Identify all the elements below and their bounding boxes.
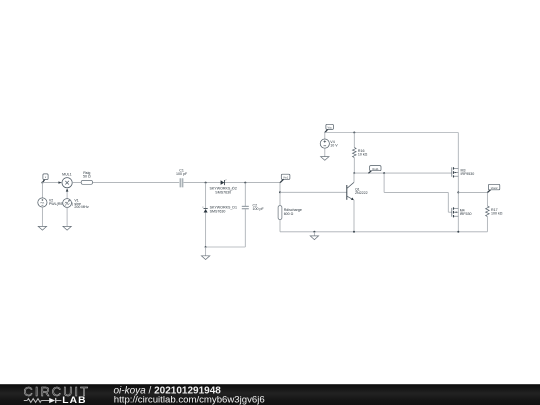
- wire: [41, 183, 43, 198]
- ground (under V1): [63, 226, 71, 230]
- wire top rail: [325, 132, 459, 134]
- MOSFET M3 labels: [461, 169, 475, 176]
- wire (R16 bottom lead): [353, 158, 355, 174]
- source V2: [38, 198, 47, 207]
- resistor R17: [486, 206, 490, 217]
- source V1 labels: [74, 199, 89, 210]
- resistor R17 labels: [491, 208, 503, 215]
- source V4: [320, 139, 329, 148]
- MOSFET M4 labels: [460, 209, 472, 216]
- ground (under V4): [321, 157, 329, 161]
- svg-text:Vout2: Vout2: [491, 186, 498, 190]
- resistor Rdischarge: [278, 206, 282, 220]
- junction bottom node: [205, 246, 207, 248]
- junction emitter-rail: [353, 231, 355, 233]
- capacitor C1 labels: [176, 169, 188, 176]
- diode D2 labels: [210, 187, 237, 195]
- source V2 PWL(REPEAT) label: [49, 199, 73, 207]
- wire (bottom node to C2 bottom): [206, 246, 246, 248]
- wire: [42, 182, 58, 184]
- wire: [66, 207, 68, 226]
- wire (Q1 emitter to rail): [353, 200, 355, 232]
- wire (Vcc rail down right side): [457, 133, 459, 232]
- node flag Vout2: [487, 184, 500, 192]
- svg-text:IRF530: IRF530: [460, 212, 472, 216]
- wire (V1 to MUL1): [66, 191, 68, 198]
- wire (stem to ground): [205, 247, 207, 256]
- ground (under V2): [38, 226, 46, 230]
- svg-text:600 Ω: 600 Ω: [284, 212, 294, 216]
- wire (down from Vout1 row): [383, 173, 385, 192]
- svg-text:50 Ω: 50 Ω: [83, 175, 91, 179]
- MOSFET M4 IRF530: [452, 207, 459, 217]
- svg-text:LAB: LAB: [62, 394, 86, 405]
- svg-text:SMS7630: SMS7630: [215, 190, 231, 194]
- svg-text:Vout1: Vout1: [372, 167, 379, 171]
- svg-text:Vcc: Vcc: [328, 126, 333, 130]
- resistor Rsig: [81, 181, 92, 185]
- svg-text:MUL1: MUL1: [62, 172, 72, 176]
- wire (across to M4 gate column): [384, 191, 448, 193]
- wire (MUL1 to C1 main row): [72, 182, 180, 184]
- wire (Vout2 node to R17): [458, 191, 487, 193]
- diode D2 label leader line: [230, 187, 234, 191]
- wire (R17 top lead): [486, 192, 488, 206]
- arrowhead into MUL1 left input: [58, 181, 62, 183]
- junction at D1 branch: [205, 182, 207, 184]
- wire: [41, 207, 43, 226]
- capacitor C2 labels: [253, 203, 265, 211]
- junction M4 source-rail: [457, 231, 459, 233]
- svg-text:200 MHz: 200 MHz: [74, 205, 89, 209]
- resistor R16: [353, 147, 357, 157]
- wire (to M4 gate): [448, 211, 451, 213]
- wire bottom rail: [280, 231, 487, 233]
- junction gate-branch node: [383, 172, 385, 174]
- wire (Vin1 down): [279, 183, 281, 206]
- diode D2 SKYWORKS_D2: [221, 180, 228, 186]
- wire (R17 bottom lead): [486, 217, 488, 232]
- junction at R16 top: [353, 132, 355, 134]
- junction rail-ground: [313, 231, 315, 233]
- resistor Rdischarge labels: [284, 208, 302, 216]
- capacitor C1: [179, 178, 184, 187]
- svg-text:10 kΩ: 10 kΩ: [358, 153, 368, 157]
- svg-text:Vin1: Vin1: [283, 176, 289, 180]
- svg-text:100 pF: 100 pF: [176, 172, 188, 176]
- node flag Vcc: [325, 124, 334, 132]
- wire (C2 to bottom node): [244, 209, 246, 247]
- arrowhead into MUL1 bottom input: [66, 188, 69, 192]
- multiplier MUL1: [62, 178, 72, 188]
- wire (D1 to bottom node): [205, 213, 207, 248]
- junction Vout2 node: [457, 191, 459, 193]
- svg-text:2N2222: 2N2222: [355, 191, 368, 195]
- ground (below D1/C2 node): [201, 256, 209, 260]
- node flag Vout1: [368, 166, 381, 174]
- svg-text:http://circuitlab.com/cmyb6w3j: http://circuitlab.com/cmyb6w3jgv6j6: [114, 395, 265, 405]
- wire (Q1 collector): [353, 173, 355, 182]
- capacitor C2: [242, 206, 249, 208]
- junction at Q1 base branch: [279, 191, 281, 193]
- wire (R16 top lead): [353, 133, 355, 148]
- wire (C1 to Vin1): [183, 182, 280, 184]
- svg-text:100 pF: 100 pF: [253, 207, 265, 211]
- footer bar: [0, 384, 540, 405]
- wire (down to D1): [205, 183, 207, 209]
- svg-text:100 kΩ: 100 kΩ: [491, 211, 503, 215]
- transistor Q1 labels: [355, 188, 368, 196]
- svg-text:IRF9530: IRF9530: [461, 172, 475, 176]
- wire (Vcc to V4): [324, 133, 326, 140]
- wire (down to C2): [244, 183, 246, 207]
- diode D1 labels: [210, 206, 237, 214]
- ground (on rail): [310, 236, 318, 240]
- MOSFET M3 IRF9530: [452, 167, 459, 177]
- diode D1 SKYWORKS_D1: [202, 207, 207, 212]
- svg-text:PWL: PWL: [40, 203, 44, 205]
- wire (down to M4 gate row): [447, 192, 449, 212]
- wire (Vout1 row to M3 gate): [354, 172, 451, 174]
- wire (Rdischarge to rail): [279, 219, 281, 231]
- svg-text:10 V: 10 V: [330, 143, 338, 147]
- footer logo wire-resistor-diode glyph: [24, 398, 62, 403]
- junction collector node: [353, 172, 355, 174]
- junction at C2 branch: [244, 182, 246, 184]
- resistor Rsig labels: [83, 171, 91, 178]
- junction node A: [41, 182, 43, 184]
- source V1 sine: [63, 199, 72, 208]
- wire (V4 to ground): [324, 148, 326, 156]
- wire (to Q1 base): [280, 191, 347, 193]
- node flag Vin1: [280, 174, 290, 183]
- wire (stem): [313, 232, 315, 236]
- resistor R16 labels: [358, 149, 368, 157]
- source V4 labels: [330, 140, 338, 147]
- node flag V (top-left): [42, 174, 48, 183]
- svg-text:SMS7630: SMS7630: [210, 210, 226, 214]
- transistor Q1: [347, 182, 354, 200]
